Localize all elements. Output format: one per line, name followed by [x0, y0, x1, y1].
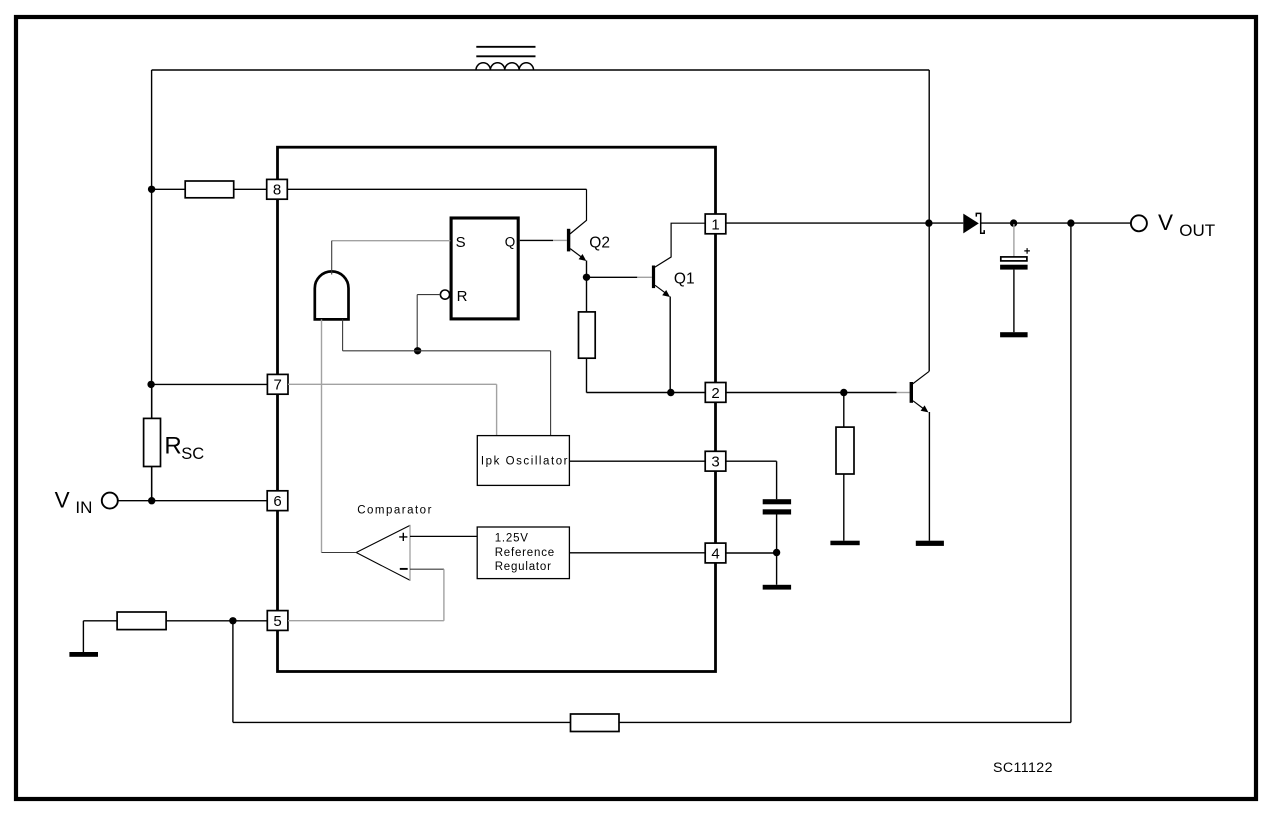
wire oscillator output to pin 3	[570, 460, 705, 462]
wire AND output vertical	[331, 241, 333, 275]
block 1.25V Reference Regulator	[477, 527, 569, 579]
wire AND right input	[342, 319, 344, 350]
node: junction dot Q1 emitter at pin 2	[667, 389, 674, 396]
op-amp comparator	[356, 525, 410, 581]
resistor (feedback divider upper)	[571, 714, 620, 732]
node: junction dot pin 4	[773, 549, 780, 556]
wire comparator + input to reference	[410, 535, 477, 537]
label RSC	[164, 433, 204, 464]
diode (Schottky rectifier)	[963, 213, 984, 233]
capacitor (output, polarized)	[1000, 224, 1030, 332]
svg-text:3: 3	[711, 454, 719, 471]
node: junction dot diode anode rail	[925, 219, 932, 226]
wire right vertical (diode node down to external transistor collector)	[928, 70, 930, 371]
resistor (feedback divider lower)	[117, 612, 166, 630]
node: junction dot output capacitor	[1010, 219, 1017, 226]
wire feedback loop bottom	[233, 223, 1071, 722]
pin 3	[705, 451, 726, 471]
svg-text:V: V	[1158, 210, 1173, 235]
svg-text:Q: Q	[505, 234, 516, 249]
svg-text:Reference: Reference	[495, 547, 555, 559]
node: junction dot at pin 8 rail	[148, 186, 155, 193]
wire latch Q output to Q2 base	[520, 239, 553, 241]
svg-text:V: V	[55, 487, 70, 512]
resistor (Q2 emitter)	[579, 277, 596, 392]
wire comparator output	[322, 552, 357, 554]
wire Q1 base stub (gray)	[637, 276, 652, 278]
ground (base pulldown resistor)	[830, 541, 859, 546]
ground (external transistor emitter)	[916, 541, 944, 546]
svg-text:4: 4	[711, 545, 719, 562]
transistor Q2	[567, 189, 587, 277]
resistor RSC	[144, 384, 161, 500]
inductor (coil with core bars)	[476, 47, 536, 70]
node: junction dot Q2 emitter	[583, 274, 590, 281]
transistor (external NPN)	[910, 371, 930, 540]
wire capacitor to pin 4 net	[726, 515, 777, 585]
wire R input net	[417, 295, 440, 351]
capacitor (timing, pin 3)	[763, 499, 791, 514]
svg-text:SC: SC	[181, 445, 204, 463]
svg-text:Comparator: Comparator	[357, 505, 433, 517]
wire Q2 base stub (gray)	[553, 239, 567, 241]
node: junction dot feedback tap	[1067, 219, 1074, 226]
svg-text:R: R	[164, 433, 181, 460]
node: junction dot Vin	[148, 497, 155, 504]
wire resistor to pin 5	[166, 620, 267, 622]
block Ipk Oscillator	[477, 436, 569, 486]
wire reference output to pin 4	[569, 552, 705, 554]
wire left vertical rail	[151, 70, 153, 501]
node: junction dot pin 5	[229, 617, 236, 624]
IC block outline	[278, 147, 716, 671]
latch (S-R flip flop)	[451, 218, 518, 319]
wire comparator - input to pin 5 (gray)	[410, 568, 444, 570]
svg-text:SC11122: SC11122	[993, 760, 1053, 776]
wire diode to VOUT	[981, 222, 1131, 224]
wire rail to pin 7	[151, 383, 267, 385]
node: junction dot pin 7 rail	[147, 381, 154, 388]
wire pin 3 to timing capacitor	[726, 461, 777, 499]
wire Q2 emitter to Q1 base	[587, 276, 638, 278]
wire ground leg	[83, 621, 117, 652]
svg-text:2: 2	[711, 385, 719, 402]
svg-text:1.25V: 1.25V	[495, 532, 529, 544]
ground (output capacitor)	[1000, 332, 1028, 337]
wire Vin to pin 6	[118, 500, 267, 502]
svg-text:7: 7	[274, 377, 282, 394]
wire pin 1 to diode	[726, 222, 964, 224]
wire pin 7 to oscillator (gray)	[288, 384, 497, 435]
ground (pin 4)	[763, 585, 791, 590]
terminal VIN	[55, 487, 118, 517]
pin 7	[267, 374, 288, 394]
wire emitter resistor to pin 2	[587, 392, 706, 394]
svg-text:6: 6	[273, 493, 281, 510]
AND gate	[315, 271, 349, 319]
terminal VOUT	[1131, 210, 1215, 240]
svg-text:Regulator: Regulator	[495, 561, 552, 573]
ground (comparator input divider)	[69, 652, 98, 657]
wire resistor to pin 8	[234, 188, 267, 190]
wire pin 2 to external transistor base	[726, 392, 897, 394]
svg-text:1: 1	[711, 216, 719, 233]
wire oscillator to R/AND net	[343, 351, 551, 436]
svg-text:Ipk Oscillator: Ipk Oscillator	[481, 455, 569, 467]
node: junction dot base resistor	[840, 389, 847, 396]
wire rail to pin-8 resistor	[152, 188, 186, 190]
inverter bubble at R input	[440, 290, 449, 299]
svg-text:5: 5	[273, 613, 281, 630]
svg-text:Q2: Q2	[589, 234, 610, 251]
wire AND left input from comparator (gray vertical)	[321, 319, 323, 552]
svg-text:OUT: OUT	[1179, 221, 1215, 240]
pin 6	[267, 491, 288, 511]
pin 2	[705, 383, 726, 403]
svg-text:IN: IN	[75, 498, 92, 517]
wire pin 8 to Q2 collector	[288, 188, 587, 190]
svg-text:8: 8	[273, 182, 281, 199]
pin 8	[267, 179, 288, 199]
svg-text:Q1: Q1	[674, 271, 695, 288]
node: junction dot R net	[414, 347, 421, 354]
pin 1	[705, 214, 726, 234]
pin 5	[267, 611, 288, 631]
svg-text:R: R	[457, 288, 468, 305]
wire base stub (gray)	[897, 392, 910, 394]
svg-text:S: S	[456, 234, 466, 251]
wire top rail from Vin node to diode node	[152, 69, 930, 71]
wire AND output to S (gray horizontal)	[332, 240, 451, 242]
resistor (external base pulldown)	[836, 393, 854, 541]
pin 4	[705, 543, 726, 563]
transistor Q1	[652, 223, 705, 392]
resistor (Ipk sense, to pin 8)	[185, 181, 234, 198]
